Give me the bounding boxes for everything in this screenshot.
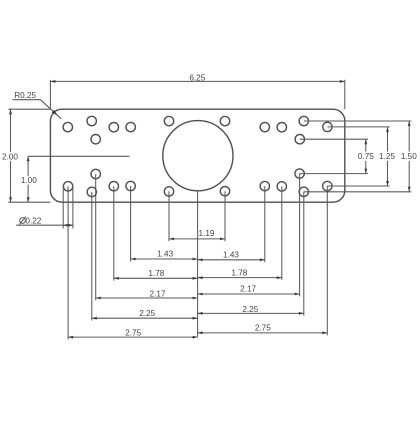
small hole B12	[323, 181, 332, 190]
small hole T2	[87, 116, 96, 125]
small hole B8	[260, 181, 269, 190]
dimension 1.19 middle holes	[169, 191, 225, 241]
small hole B4	[109, 182, 118, 191]
small hole T4	[109, 123, 118, 132]
small hole T10	[295, 135, 304, 144]
svg-text:2.25: 2.25	[242, 305, 258, 314]
small hole T9	[277, 123, 286, 132]
dimension 1.43 right	[198, 186, 265, 262]
svg-text:R0.25: R0.25	[14, 91, 36, 100]
dimension 1.78 right	[198, 186, 282, 280]
svg-text:2.17: 2.17	[150, 289, 166, 298]
svg-text:2.17: 2.17	[240, 285, 256, 294]
small hole T5	[126, 122, 135, 131]
hole diameter label 0.22 with leader	[16, 186, 73, 228]
small hole B2	[87, 187, 96, 196]
svg-text:0.22: 0.22	[25, 217, 41, 226]
small hole B11	[299, 187, 308, 196]
svg-text:1.25: 1.25	[379, 152, 395, 161]
svg-text:1.78: 1.78	[148, 269, 164, 278]
vertical center extension line	[197, 191, 199, 337]
small hole B1	[63, 182, 72, 191]
small hole T7	[220, 116, 229, 125]
dimension 1.78 left	[114, 186, 198, 280]
dimension 0.75 right	[300, 139, 368, 173]
small hole B10	[295, 169, 304, 178]
small hole B7	[220, 187, 229, 196]
dimension 6.25 overall width	[50, 80, 344, 109]
svg-text:2.25: 2.25	[139, 309, 155, 318]
dimension 2.75 right	[198, 186, 328, 335]
small hole T8	[260, 122, 269, 131]
svg-text:0.75: 0.75	[358, 152, 374, 161]
svg-text:1.78: 1.78	[231, 268, 247, 277]
plate outline	[50, 109, 344, 202]
dimension 1.25 right	[327, 127, 389, 186]
dimension 2.25 left	[92, 192, 198, 321]
svg-text:1.19: 1.19	[199, 229, 215, 238]
svg-text:1.00: 1.00	[21, 176, 37, 185]
dimension 2.00 overall height	[8, 109, 50, 202]
small hole T11	[299, 116, 308, 125]
small hole B5	[126, 181, 135, 190]
small hole B3	[91, 169, 100, 178]
small hole T1	[63, 122, 72, 131]
small hole B9	[277, 182, 286, 191]
svg-text:2.75: 2.75	[125, 329, 141, 338]
dimension 2.75 left	[68, 186, 198, 339]
big center hole 1.50 dia	[163, 121, 233, 191]
corner radius label R0.25 with leader	[13, 100, 62, 119]
small hole T3	[91, 135, 100, 144]
dimension 2.17 left	[96, 174, 198, 300]
small hole B6	[164, 187, 173, 196]
svg-text:1.50: 1.50	[401, 152, 417, 161]
dimension 1.43 left	[131, 186, 198, 261]
dimension 2.25 right	[198, 192, 304, 316]
svg-text:1.43: 1.43	[223, 250, 239, 259]
dimension 2.17 right	[198, 174, 300, 297]
horizontal center line	[28, 155, 129, 157]
svg-text:6.25: 6.25	[189, 74, 205, 83]
svg-text:1.43: 1.43	[157, 249, 173, 258]
dimension 1.00 center height	[27, 156, 29, 202]
svg-text:2.00: 2.00	[2, 152, 18, 161]
small hole T6	[164, 116, 173, 125]
dimension 1.50 right	[304, 121, 412, 192]
small hole T12	[323, 122, 332, 131]
svg-text:2.75: 2.75	[255, 324, 271, 333]
